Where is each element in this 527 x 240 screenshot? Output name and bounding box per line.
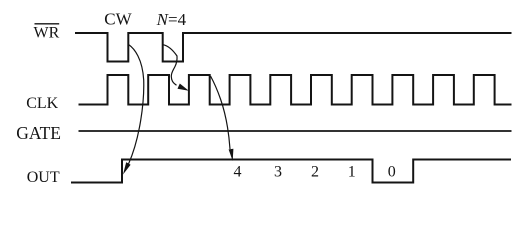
- arrow from N=4 pulse to CLK rising edge: [163, 45, 177, 86]
- wire CLK waveform: [79, 75, 512, 105]
- svg-text:CLK: CLK: [26, 95, 58, 112]
- svg-text:OUT: OUT: [27, 169, 60, 186]
- overline of WR: [35, 23, 60, 25]
- svg-text:2: 2: [311, 164, 319, 181]
- svg-text:3: 3: [274, 164, 282, 181]
- svg-text:1: 1: [348, 164, 356, 181]
- arrow from CW pulse to OUT rising edge: [129, 45, 144, 165]
- svg-text:GATE: GATE: [16, 123, 61, 143]
- svg-text:WR: WR: [34, 25, 60, 42]
- wire OUT waveform: [71, 160, 511, 183]
- wire GATE waveform: [79, 130, 512, 132]
- svg-text:4: 4: [234, 164, 242, 181]
- svg-text:0: 0: [388, 164, 396, 181]
- arrow from CLK falling edge to count 4: [211, 76, 231, 149]
- wire WR waveform: [75, 33, 512, 62]
- svg-text:CW: CW: [104, 10, 132, 29]
- svg-text:N=4: N=4: [156, 10, 187, 29]
